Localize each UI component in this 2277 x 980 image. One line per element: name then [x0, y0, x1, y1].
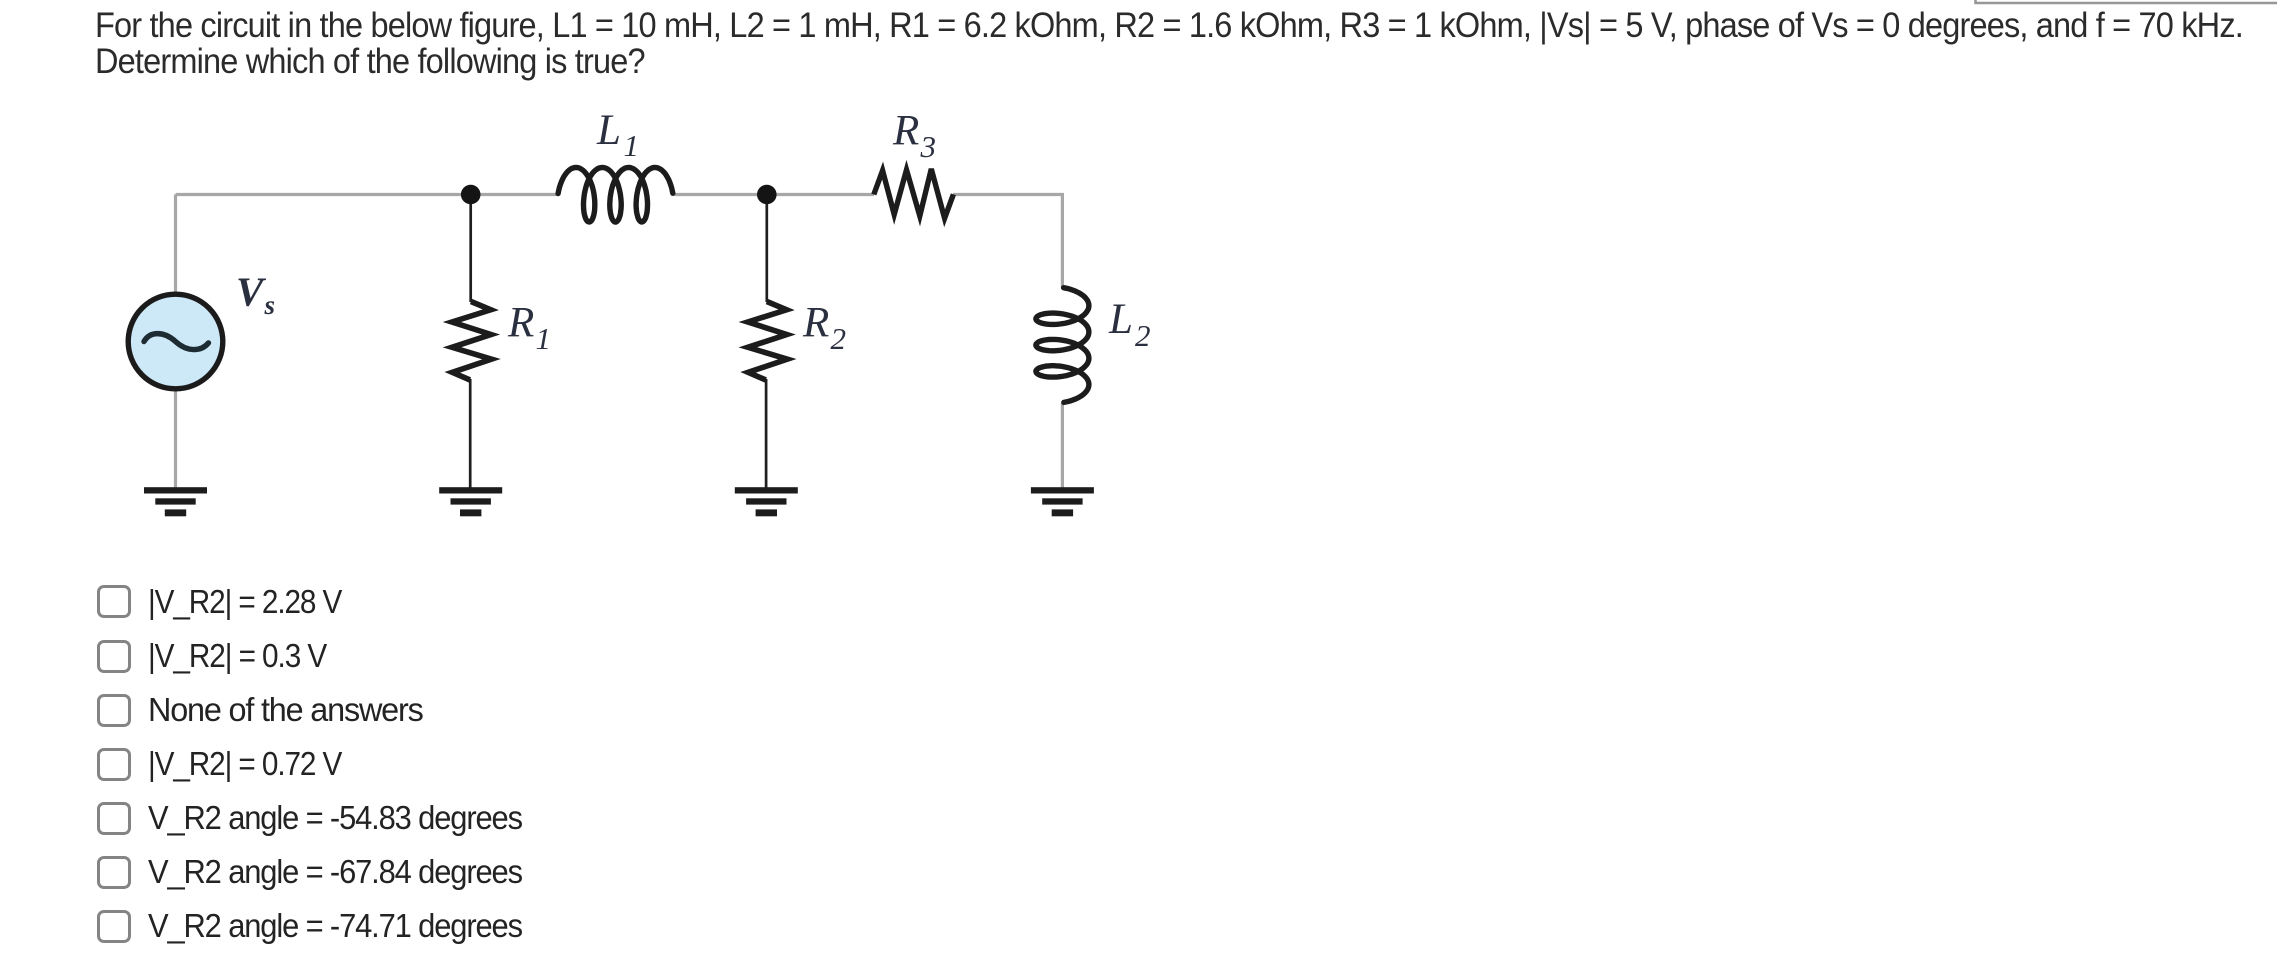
- svg-text:L: L: [1108, 296, 1133, 343]
- resistor R3: [874, 169, 954, 218]
- svg-text:R: R: [892, 108, 919, 155]
- svg-text:R: R: [507, 300, 534, 347]
- checkbox option 3: [97, 694, 131, 727]
- wire left vertical from top wire to Vs source: [174, 195, 177, 295]
- checkbox option 2: [97, 640, 131, 673]
- answer option 4 text: [148, 747, 341, 780]
- wire top-left segment: [176, 193, 558, 196]
- label L2: [1108, 296, 1151, 353]
- wire from Vs source down to ground: [174, 389, 177, 488]
- question text: [95, 8, 2243, 80]
- svg-text:3: 3: [920, 129, 937, 164]
- wire R2 down to ground: [765, 379, 768, 488]
- answer option 5 text: [148, 801, 522, 834]
- answer option 6 text: [148, 855, 522, 888]
- svg-text:1: 1: [624, 128, 640, 163]
- wire from L2 down to ground: [1061, 403, 1064, 488]
- answer option 1 text: [148, 585, 341, 618]
- label Vs: [236, 269, 275, 321]
- node B junction dot: [757, 185, 777, 205]
- ground under L2: [1031, 487, 1094, 516]
- AC source Vs: [128, 294, 223, 389]
- wire node A down to R1: [469, 195, 472, 302]
- inductor L1: [558, 168, 673, 223]
- svg-text:R: R: [802, 300, 829, 347]
- ground under Vs: [144, 487, 207, 516]
- checkbox option 1: [97, 585, 131, 618]
- label L1: [596, 107, 639, 163]
- svg-text:2: 2: [831, 321, 847, 356]
- top-right border corner line: [1974, 0, 2277, 3]
- wire R1 down to ground: [469, 379, 472, 488]
- svg-text:1: 1: [536, 321, 552, 356]
- label R2: [802, 300, 846, 357]
- svg-text:L: L: [596, 107, 621, 154]
- ground under R1: [439, 487, 502, 516]
- answer option 7 text: [148, 909, 522, 942]
- svg-text:2: 2: [1135, 318, 1151, 353]
- answer option 3 text: [148, 693, 423, 726]
- answer option 2 text: [148, 639, 326, 672]
- svg-text:V: V: [236, 269, 267, 315]
- label R1: [507, 300, 551, 357]
- wire from R3 to right corner and down to L2: [953, 193, 1062, 287]
- checkbox option 5: [97, 802, 131, 835]
- wire between L1 and node B: [674, 193, 875, 196]
- node A junction dot: [461, 185, 481, 205]
- ground under R2: [735, 487, 798, 516]
- checkbox option 6: [97, 856, 131, 889]
- checkbox option 4: [97, 748, 131, 781]
- resistor R2: [748, 302, 788, 381]
- inductor L2: [1036, 288, 1089, 403]
- checkbox option 7: [97, 910, 131, 943]
- label R3: [892, 108, 936, 165]
- wire node B down to R2: [765, 195, 768, 302]
- resistor R1: [452, 302, 492, 381]
- svg-text:s: s: [264, 290, 276, 320]
